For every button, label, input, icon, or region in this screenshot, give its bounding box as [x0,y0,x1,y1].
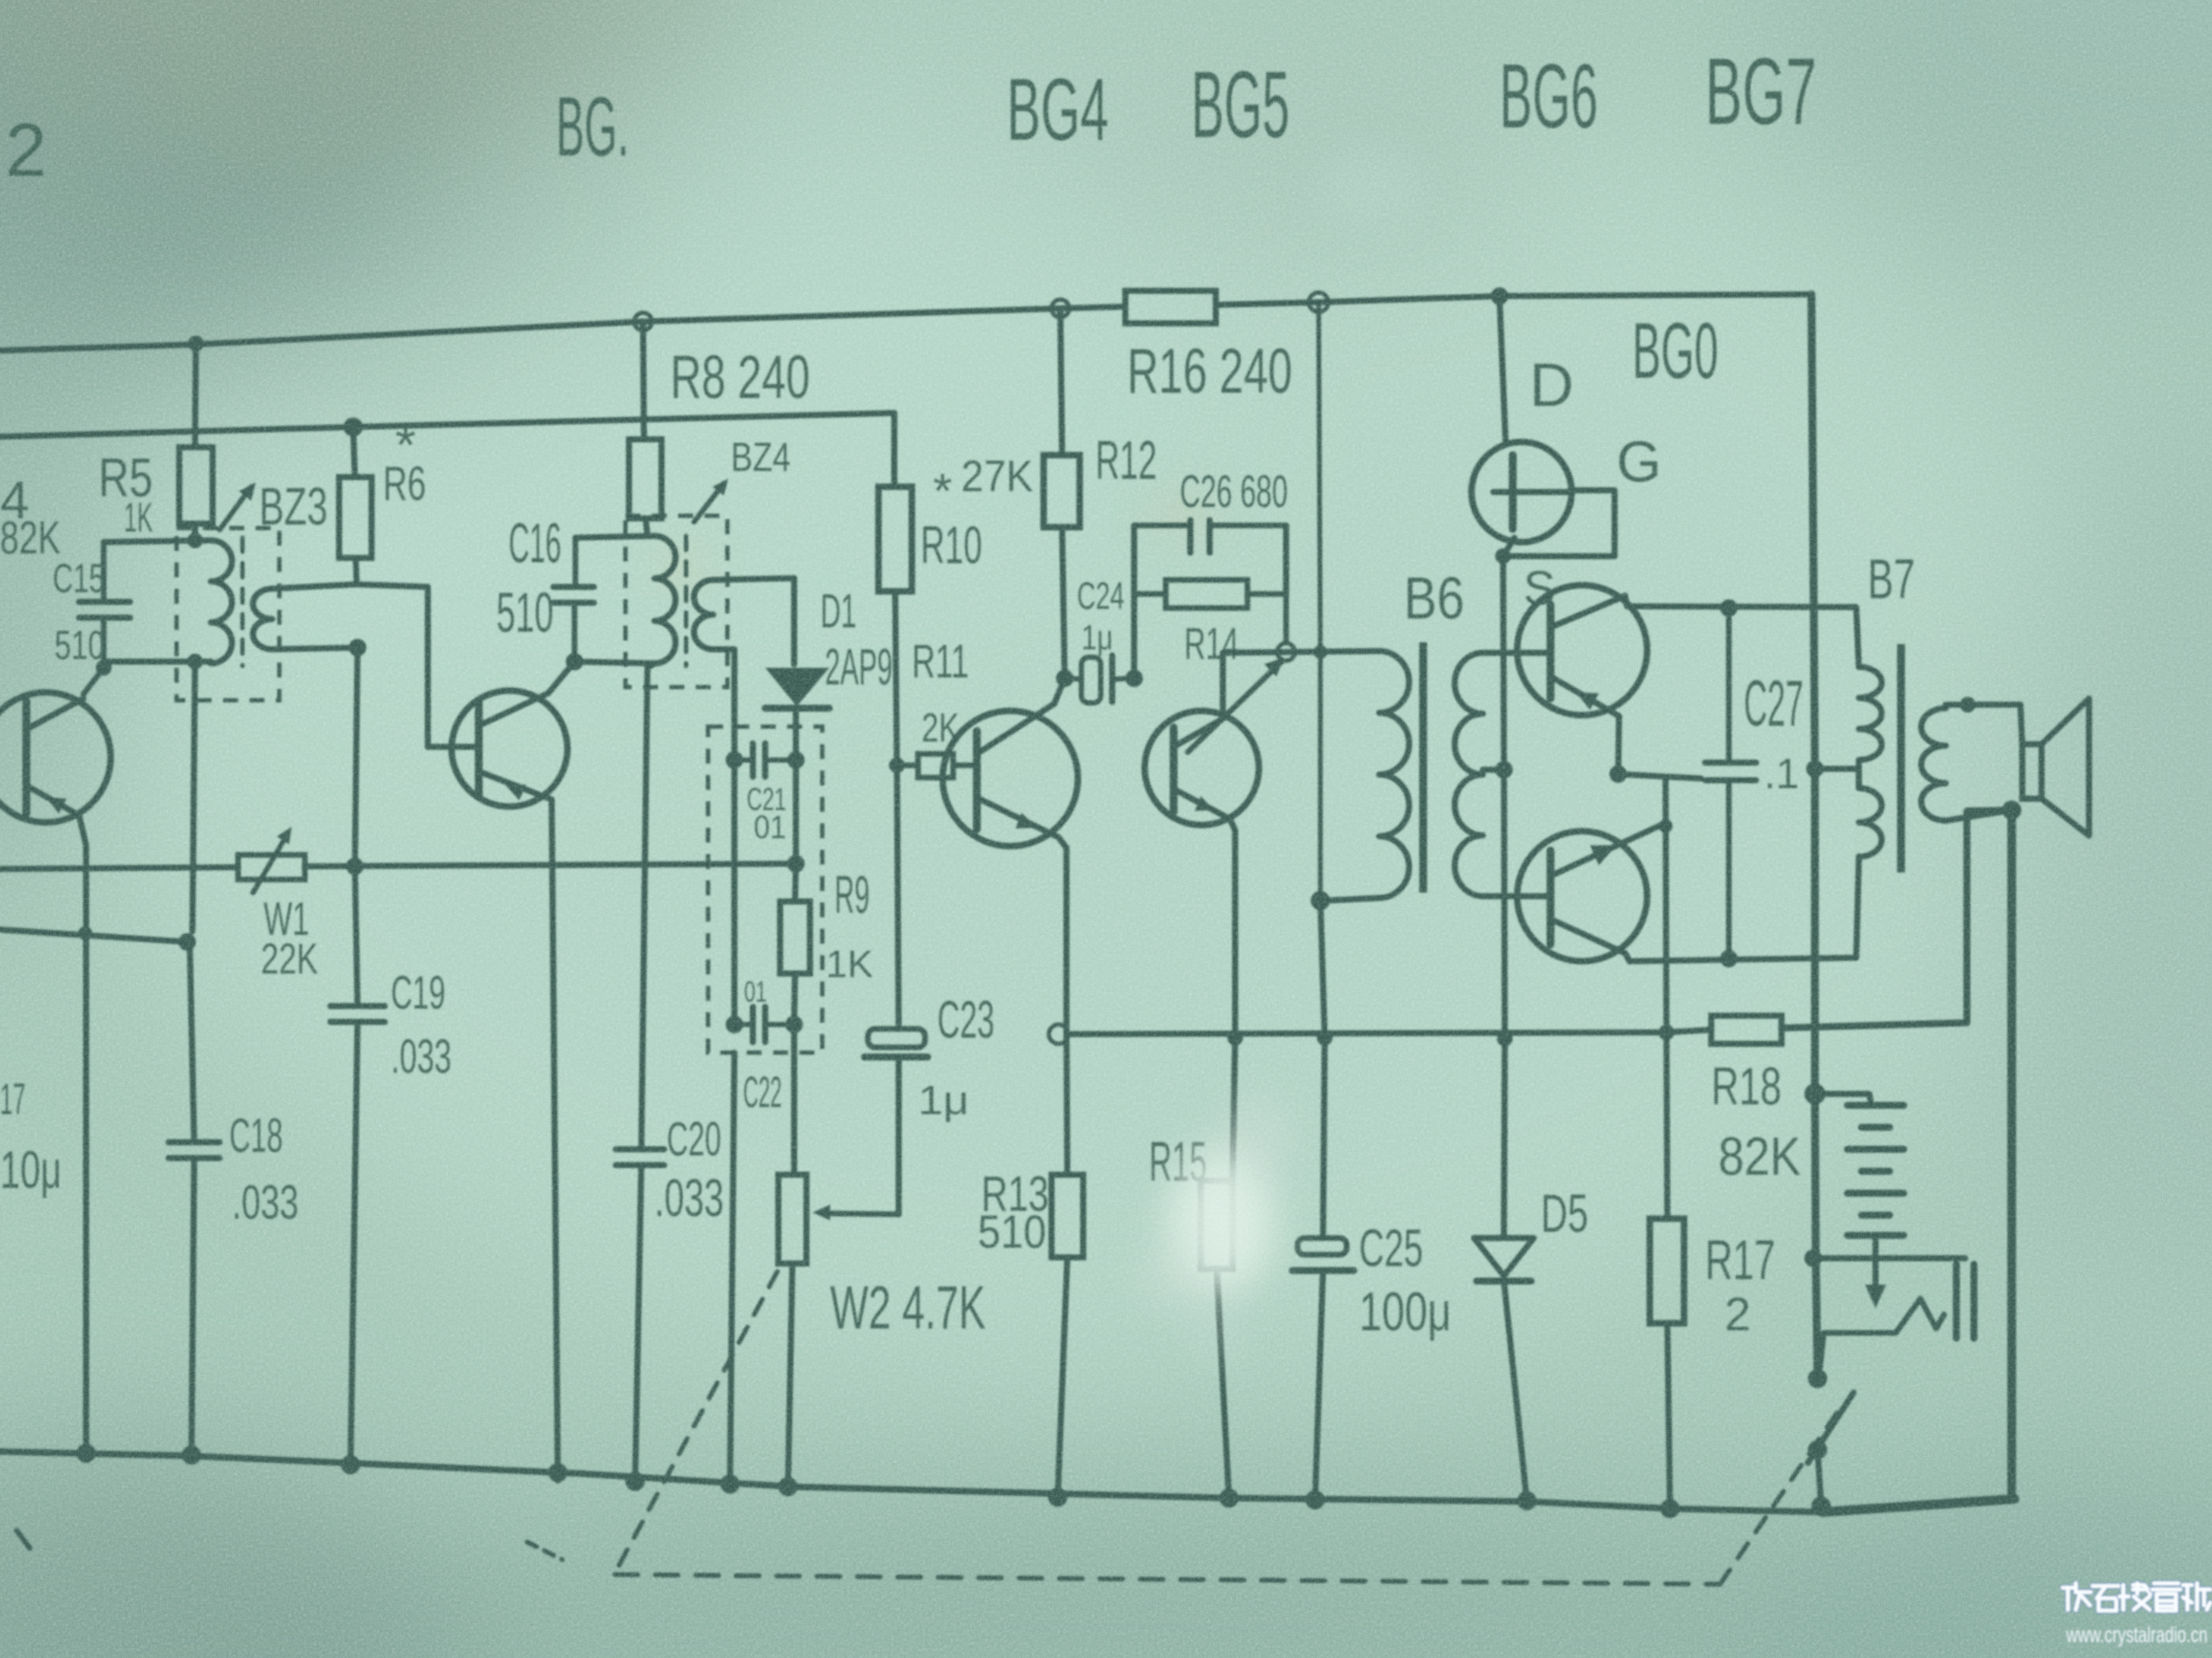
wire: BG6 collector to B7 primary top [1625,596,1859,667]
label B6 [1404,565,1464,632]
transistor BG2 (partially cut at edge) [0,692,111,845]
wire: BG4 collector up [1054,678,1065,704]
loudspeaker [2022,699,2089,836]
junction C27 top [1720,599,1738,617]
junction tap node [1495,761,1513,778]
capacitor C23 1u (electrolytic) [864,990,994,1123]
label R4 82K (cut) [0,471,61,564]
wire: R6 stub [353,427,355,477]
label BZ3 with arrow [220,477,328,536]
wire: C20 to bus [635,1165,641,1481]
transformer B7 primary lower [1855,760,1882,857]
wire: D1 to C21 node [793,708,799,760]
junction on H1 at BG5 collector line [1309,293,1328,312]
wire: tap line down to D5 [1504,770,1505,1039]
resistor R5 1K [98,447,213,540]
wire: BZ3 sec bottom to C19 [355,648,358,866]
wire: BG7 collector wire to B7 primary bottom [1625,859,1859,961]
junction bottom bus [1517,1491,1536,1510]
junction collector wire x VC [1313,645,1327,659]
label BG7 [1705,38,1817,144]
wire: C23 bottom to W2 wiper [896,1057,902,1214]
crossing circle below R14 [1277,643,1295,661]
junction C21 left [726,751,743,769]
wire: H5 bias line [1049,1024,1711,1044]
resistor R15 (smudged) [1149,1130,1233,1269]
wire: B6 secondary top to BG6 base [1483,650,1550,656]
capacitor C20 .033 [616,1111,724,1227]
capacitor C21 01 [734,743,796,845]
switch K (power) [1808,1369,1854,1504]
junction bottom bus [625,1472,645,1491]
battery B (cells) [1847,1105,1904,1235]
transformer B6 primary winding [1325,651,1409,901]
wire: BZ4 secondary top to D1 [713,578,794,664]
wire: H5 after R18 [1782,810,2012,1028]
wire: R5/BZ3 line down through H3 [192,662,195,931]
dashed switch linkage line [17,1271,1845,1584]
wire: FET gate L-wire [1503,490,1615,556]
wire: node to BG2 collector [83,668,104,694]
wire: R8 bottom to BZ4 [646,518,647,536]
junction bottom bus [1048,1488,1067,1507]
capacitor C19 .033 [330,967,452,1083]
dashed box around C21 C22 [708,727,822,1053]
wire: VR right supply rail [1811,294,1818,1379]
wire: B6 secondary center tap [1483,767,1504,773]
wire: D5 to bus [1504,1281,1527,1501]
wire: C19 to bus [351,1022,358,1465]
diode D5 [1474,1184,1588,1281]
wire: diagonal to BG5 base with arrow [1188,657,1284,752]
wire: speaker return down [2007,810,2016,1499]
label B7 [1868,547,1915,611]
wire: top supply bus H1 [0,294,1811,351]
junction bottom bus [778,1477,798,1496]
transformer BZ4 secondary winding [694,580,713,649]
junction C15 bottom node [96,660,112,676]
wire: tank top C15-BZ3 [104,540,211,542]
wire: VC down to H5 [1320,901,1325,1038]
wire: bias line down to tap [1503,556,1504,770]
capacitor C16 510 [496,511,594,662]
dashed box around BZ3 [177,528,279,700]
junction H5 x R17 line [1659,1024,1674,1040]
wire: B7 secondary bottom [1946,810,2012,821]
wire: B7 primary bottom lead [1856,857,1862,859]
resistor R16 240 [1125,291,1292,407]
junction bottom bus [1219,1488,1239,1508]
label BG2 (cut) [5,109,47,192]
transformer BZ3 secondary winding [253,589,272,649]
transformer BZ3 primary winding [211,540,232,663]
junction C22 right [785,1016,803,1033]
wire: BZ3 secondary bottom to C19 line [272,648,358,649]
wire: R5 bottom to BZ3 primary [192,524,199,540]
wire: BG4 emitter down [1059,837,1066,1028]
junction B6 primary bottom [1311,891,1330,910]
junction B7 tap x VR [1806,760,1824,778]
label BG. [556,80,629,174]
junction H3b x BG2 emitter [78,926,92,940]
wire: B6 secondary bottom to BG7 base [1483,894,1550,900]
resistor R13 510 [978,1166,1083,1258]
label C17 10u (cut) [0,1075,61,1199]
wire: BG6 emitter down to output node [1618,716,1619,774]
wire: C25 to bus [1315,1271,1323,1500]
capacitor C27 .1 [1705,608,1804,959]
wire: tap to B7 primary [1815,766,1855,772]
wire: H2 from left edge to R10 corner [0,413,894,487]
transformer B6 secondary winding [1455,653,1483,896]
junction battery node [1804,1083,1825,1104]
wire: C16 top to BZ4 primary top [575,536,654,538]
transistor BG3 [452,691,567,807]
wire: output vertical down to H5 [1666,777,1666,1032]
dashed box around BZ4 [625,516,727,687]
wire: R14 node to crossing circle [1283,594,1290,642]
wire: down to C18 [190,942,194,1142]
resistor R8 240 [629,343,810,518]
wire: B7 secondary top to speaker [1946,705,2022,746]
wire: BG3 collector to C16 node [548,662,575,693]
wire: BG5 emitter line to R15 [1233,1038,1235,1181]
wire: R17 to bus [1667,1323,1670,1509]
junction BG4 collector node [1056,670,1073,687]
resistor R17 2 [1650,1032,1775,1341]
wire: C18 to bottom bus [192,1158,194,1455]
wire: C16 bottom to BZ4 primary bottom [575,662,654,663]
transformer B7 core [1898,644,1905,872]
resistor R12 [1044,431,1157,527]
wire: C23 lead [897,765,899,1029]
label BG4 [1007,61,1109,159]
potentiometer W1 22K [238,827,318,983]
field-effect transistor BG0 [1471,308,1718,615]
transistor BG4 [943,704,1078,846]
junction H5 x C25 line [1317,1030,1333,1046]
wire: to phone jack [1813,1256,1965,1262]
junction speaker return node [2002,800,2021,820]
wire: VC supply line [1319,304,1320,901]
transformer B6 core [1420,642,1428,893]
wire: C26 box right side [1283,525,1290,594]
phone jack contacts [1896,1264,1974,1338]
wire: FET drain to H1 [1500,299,1506,444]
wire: BG5 collector up to B6 primary [1223,651,1377,719]
junction H3 end at R9 line [787,855,805,872]
wire: BZ4 secondary bottom down [713,649,734,760]
wire: jack contact to switch [1818,1333,1896,1379]
transformer BZ3 core (dashed) [241,538,245,666]
junction bottom bus [1305,1490,1325,1510]
junction bottom bus [341,1455,360,1474]
junction FET source node [1495,548,1511,564]
junction bottom bus [548,1463,567,1482]
junction bottom bus [76,1444,96,1463]
resistor R9 1K [780,864,873,986]
junction bottom bus [1811,1496,1831,1516]
white stain smudge over R15 [1135,1096,1293,1358]
junction BZ3 primary top [187,532,203,548]
transistor BG6 [1517,585,1647,716]
wire: R15 to bus [1217,1269,1229,1498]
junction secondary top [1960,697,1976,713]
wire: R5 stub from H1 [195,344,196,447]
potentiometer W2 4.7K [778,1024,986,1342]
wire: H3b AGC wire [0,930,187,942]
junction detector node [889,757,905,773]
wire: FET source [1503,538,1514,556]
wire: R6 bottom corner to BG3 base [356,558,479,747]
wire: C22 left line to bus [730,1053,734,1484]
wire: battery top lead [1815,1094,1871,1105]
transformer BZ4 core (dashed) [684,536,689,666]
junction C16 bottom node [566,653,583,670]
wire: output node east [1618,774,1701,778]
capacitor C24 1u (electrolytic) [1065,575,1134,703]
wire: W2 bottom to bus [788,1263,792,1487]
junction bottom bus [1660,1499,1680,1518]
wire: BZ4 primary bottom down to C20 [641,663,654,1149]
transformer BZ4 primary winding [654,536,676,663]
wire: C21 bypass line left side [732,760,738,1024]
diode D1 2AP9 [765,583,893,708]
junction on H1 at FET drain [1491,287,1508,305]
wire: R12 stub from H1 [1060,308,1062,455]
capacitor C25 100u (electrolytic) [1292,1038,1451,1343]
transformer B7 secondary [1921,708,1946,821]
junction H3 x C19 line [346,858,364,875]
capacitor C26 680 [1134,467,1288,553]
wire: D5 line [1504,1039,1505,1234]
wire: C26 box left side [1131,525,1138,678]
resistor R10 27K [878,452,1033,591]
resistor R18 82K [1711,1016,1801,1186]
junction BZ3 primary bottom [187,654,203,670]
wire: BG2 emitter down to bus [83,845,90,1453]
wire: BZ3 secondary top to R6 line [272,584,357,589]
resistor R14 [1134,580,1286,669]
transistor BG7 [1517,824,1663,961]
junction output node [1609,765,1627,783]
label BG6 [1500,46,1598,148]
wire: H3 volume line [0,864,796,869]
capacitor C15 510 [53,542,130,668]
resistor R11 2K [897,635,977,778]
capacitor C22 01 [734,975,794,1117]
junction C22 left [726,1016,743,1033]
watermark crystalradio.cn [2063,1583,2210,1647]
wire: R12 bottom to collector node [1062,527,1065,678]
wire: D1 line to H3 end [793,760,799,864]
junction C27 bottom [1720,950,1738,967]
wire: bottom ground bus [0,1452,2014,1512]
label BG5 [1191,51,1290,157]
junction on H1 at R12 line [1052,300,1069,317]
junction C21 right [787,751,805,769]
junction H3b end [178,933,196,951]
junction BG7 emitter join [1659,819,1673,833]
transistor BG5 [1145,711,1259,825]
transformer B7 primary upper [1859,667,1882,760]
resistor R6 [339,416,426,558]
wire: R13 to bus [1058,1257,1067,1497]
wire: R8 stub from H1 [643,322,644,439]
wire: R10 bottom to R11 node [895,591,897,765]
wire: BG5 emitter down [1230,819,1235,1038]
wire: C19 line [355,866,358,1006]
junction jack wire x VR [1804,1249,1822,1267]
wire: R9 bottom to C22 node [794,974,795,1024]
junction bottom bus [720,1474,740,1494]
junction H5 x BG5 emitter line [1227,1030,1243,1046]
junction BZ3 sec bottom [349,639,366,656]
wire: BG3 emitter down to bus [552,800,558,1481]
junction on H2 at R6 [343,417,363,437]
junction bottom bus [182,1445,201,1465]
wire: tank bottom [104,659,211,665]
junction C26 box left [1125,670,1143,687]
junction H5 x D5 line [1497,1031,1513,1046]
junction on H1 at R8 line [634,313,652,330]
junction on H1 at R5 line [188,336,204,351]
wire: BG4 emitter line below H5 [1066,1028,1067,1175]
wire: battery bottom plug arrow [1865,1235,1886,1308]
capacitor C18 .033 [169,1108,299,1229]
label BZ4 with arrow [694,434,791,522]
